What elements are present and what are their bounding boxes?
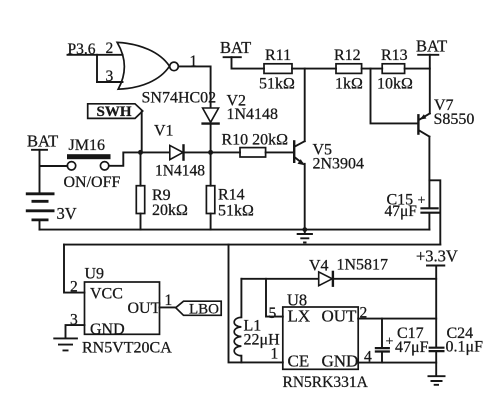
ground symbol at C24: [428, 376, 446, 385]
svg-text:1N4148: 1N4148: [227, 106, 279, 123]
svg-text:2N3904: 2N3904: [313, 156, 365, 173]
svg-text:+3.3V: +3.3V: [416, 247, 458, 266]
wire collector branch to rail-2: [429, 180, 440, 244]
resistor R11: [264, 64, 336, 74]
svg-text:CE: CE: [288, 352, 310, 371]
svg-text:U9: U9: [85, 266, 105, 283]
wire rail-2 down to U9 VCC pin 2: [64, 245, 85, 293]
wire V5 collector up: [304, 69, 306, 142]
svg-text:SWH: SWH: [97, 104, 132, 120]
IC U8 box: [283, 307, 358, 369]
junction node B: [208, 150, 213, 155]
wire P3.6 to gate input 1: [68, 54, 123, 56]
battery GB 3V: [26, 194, 55, 220]
svg-text:R14: R14: [218, 187, 245, 204]
capacitor C17: [375, 319, 390, 363]
wire V5 emitter to ground rail: [304, 164, 306, 230]
wire input tie vertical: [96, 55, 98, 82]
transistor V7 S8550: [418, 113, 429, 136]
svg-text:1N4148: 1N4148: [155, 163, 205, 180]
wire U8 GND to ground: [358, 362, 436, 364]
wire U8 OUT to +3.3V rail: [358, 318, 436, 320]
resistor R10: [211, 148, 294, 157]
wire V4 cathode to +3.3V rail: [333, 278, 436, 280]
wire battery minus to ground rail: [39, 221, 41, 229]
resistor R9: [136, 152, 144, 229]
net label BAT left: [27, 132, 58, 151]
transistor V5 2N3904: [294, 141, 305, 165]
wire V2 cathode down to node: [210, 125, 212, 153]
wire R12 R13 node to V7 base: [371, 69, 418, 124]
wire U9 GND pin to ground: [66, 325, 85, 338]
svg-text:JM16: JM16: [69, 137, 105, 154]
svg-text:ON/OFF: ON/OFF: [64, 174, 121, 191]
wire +3.3V rail down: [435, 266, 437, 348]
svg-text:SN74HC02: SN74HC02: [142, 90, 217, 107]
IC U9 box: [85, 282, 160, 334]
net label BAT right: [416, 37, 447, 56]
svg-text:51kΩ: 51kΩ: [259, 76, 295, 93]
svg-text:R10 20kΩ: R10 20kΩ: [222, 132, 289, 149]
wire BAT to R11: [232, 57, 265, 68]
wire U9 OUT pin to LBO: [160, 306, 176, 308]
svg-text:5: 5: [269, 305, 277, 322]
svg-text:1kΩ: 1kΩ: [335, 76, 363, 93]
svg-text:VCC: VCC: [90, 286, 123, 303]
diode V2: [203, 108, 219, 124]
svg-text:1: 1: [190, 53, 198, 70]
svg-text:+: +: [386, 335, 394, 350]
svg-text:OUT: OUT: [322, 307, 358, 326]
inductor L1: [234, 279, 241, 363]
diode V1: [170, 145, 184, 159]
wire switch to node A: [109, 152, 139, 165]
svg-text:BAT: BAT: [27, 132, 58, 151]
svg-text:GND: GND: [322, 352, 359, 371]
svg-text:OUT: OUT: [128, 300, 161, 317]
switch JM16: [64, 137, 121, 191]
resistor R12: [336, 64, 382, 74]
capacitor C24: [429, 348, 445, 376]
wire LX feed: [266, 279, 283, 317]
ground rail 1: [40, 229, 430, 231]
wire gate output to V2: [178, 66, 210, 107]
svg-text:LX: LX: [288, 307, 311, 326]
net label +3.3V: [416, 247, 458, 266]
svg-text:LBO: LBO: [189, 302, 219, 318]
svg-text:R12: R12: [334, 47, 361, 64]
capacitor C15: [420, 208, 440, 229]
diode V4: [319, 272, 333, 286]
wire BAT to battery and switch: [40, 150, 68, 193]
resistor R14: [206, 152, 214, 229]
wire SWH to switch node: [141, 112, 143, 153]
svg-text:47μF: 47μF: [395, 339, 429, 356]
svg-text:RN5VT20CA: RN5VT20CA: [82, 340, 172, 357]
wire BAT to V7 emitter: [429, 55, 431, 114]
svg-text:0.1μF: 0.1μF: [446, 339, 484, 356]
svg-text:+: +: [418, 194, 426, 209]
svg-text:RN5RK331A: RN5RK331A: [283, 374, 369, 391]
svg-text:GND: GND: [90, 321, 125, 338]
wire V1 cathode to node B: [184, 151, 211, 153]
svg-text:1: 1: [271, 346, 279, 363]
wire V7 collector down: [428, 137, 430, 208]
svg-text:R13: R13: [381, 47, 408, 64]
junction node A: [138, 150, 143, 155]
wire node A to V1 anode: [141, 151, 170, 153]
net label BAT middle: [220, 38, 251, 57]
svg-text:47μF: 47μF: [385, 203, 418, 220]
svg-text:10kΩ: 10kΩ: [377, 76, 413, 93]
svg-text:20kΩ: 20kΩ: [152, 202, 188, 219]
wire L1 top to V4 anode: [241, 278, 318, 280]
ground symbol at rail: [297, 230, 313, 243]
junction on rail at V5 emitter: [302, 227, 307, 232]
svg-text:51kΩ: 51kΩ: [218, 203, 254, 220]
net label SWH pennant: [88, 104, 143, 120]
svg-text:BAT: BAT: [416, 37, 447, 56]
svg-text:S8550: S8550: [434, 111, 475, 128]
svg-text:1N5817: 1N5817: [337, 257, 389, 274]
power rail 2 from V7 collector: [64, 244, 440, 246]
svg-text:R11: R11: [265, 47, 291, 64]
svg-text:3V: 3V: [57, 204, 77, 223]
resistor R13: [382, 64, 430, 74]
svg-text:2: 2: [70, 279, 78, 296]
svg-text:V1: V1: [154, 123, 174, 140]
wire rail-2 down to L1 and U8 CE: [229, 245, 283, 363]
NOR gate U10 SN74HC02 body: [117, 42, 178, 89]
ground symbol at U9: [53, 338, 78, 350]
wire to gate input 2: [97, 81, 123, 83]
svg-text:BAT: BAT: [220, 38, 251, 57]
net label LBO pennant: [176, 301, 222, 317]
